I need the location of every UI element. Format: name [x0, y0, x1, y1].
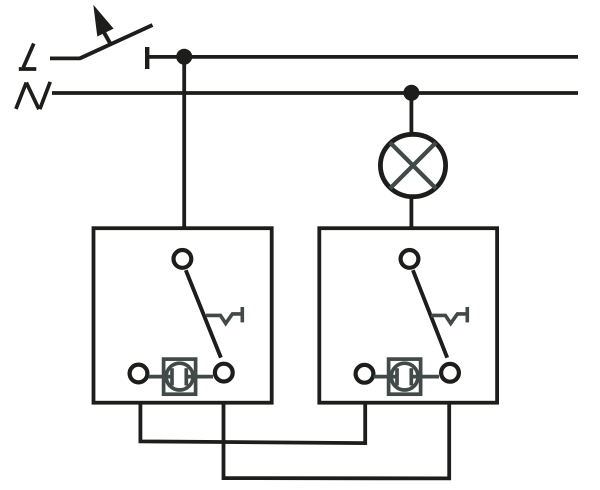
switch unit 1 enclosure: [94, 228, 272, 403]
terminal tick on L line: [145, 47, 149, 69]
switch unit 2: actuator symbol: [431, 307, 467, 323]
wire: L lead from label to switch pivot: [50, 57, 81, 61]
wire: lamp to switch unit 2: [409, 196, 413, 230]
switch unit 2: bottom-left terminal: [356, 365, 374, 383]
switch unit 1: blade contact: [186, 270, 221, 357]
wire: traveller B (unit1 right to unit2 right): [224, 401, 450, 478]
switch unit 1: bottom-left terminal: [130, 365, 148, 383]
switch unit 1: top terminal: [174, 250, 192, 268]
node: junction dot on L line: [176, 49, 192, 65]
lamp E1 circle: [380, 134, 445, 196]
wire: traveller A (unit1 left to unit2 left): [140, 401, 365, 443]
switch S1 arrowhead: [93, 5, 113, 37]
switch unit 1: bottom-right terminal: [215, 364, 233, 382]
switch unit 2: blade contact: [413, 270, 447, 358]
switch unit 1: glow lamp N1: [149, 359, 214, 394]
label L: [19, 44, 37, 70]
wire: L line: [147, 55, 578, 59]
node: junction dot on N line: [403, 85, 419, 101]
label N: [16, 82, 50, 109]
wire: N line: [52, 91, 578, 95]
switch unit 2: glow lamp N2: [374, 359, 440, 394]
switch S1 blade (supply switch, open): [80, 25, 153, 58]
wire: N junction down to lamp: [409, 93, 413, 136]
lamp E1 cross: [390, 143, 436, 189]
switch unit 1: actuator symbol: [206, 307, 242, 323]
switch unit 2: top terminal: [401, 250, 419, 268]
switch unit 2: bottom-right terminal: [441, 364, 459, 382]
wire: drop from L junction to switch unit 1: [182, 57, 186, 228]
switch unit 2 enclosure: [319, 228, 497, 403]
switch S1 actuation arrow stem: [103, 31, 110, 43]
